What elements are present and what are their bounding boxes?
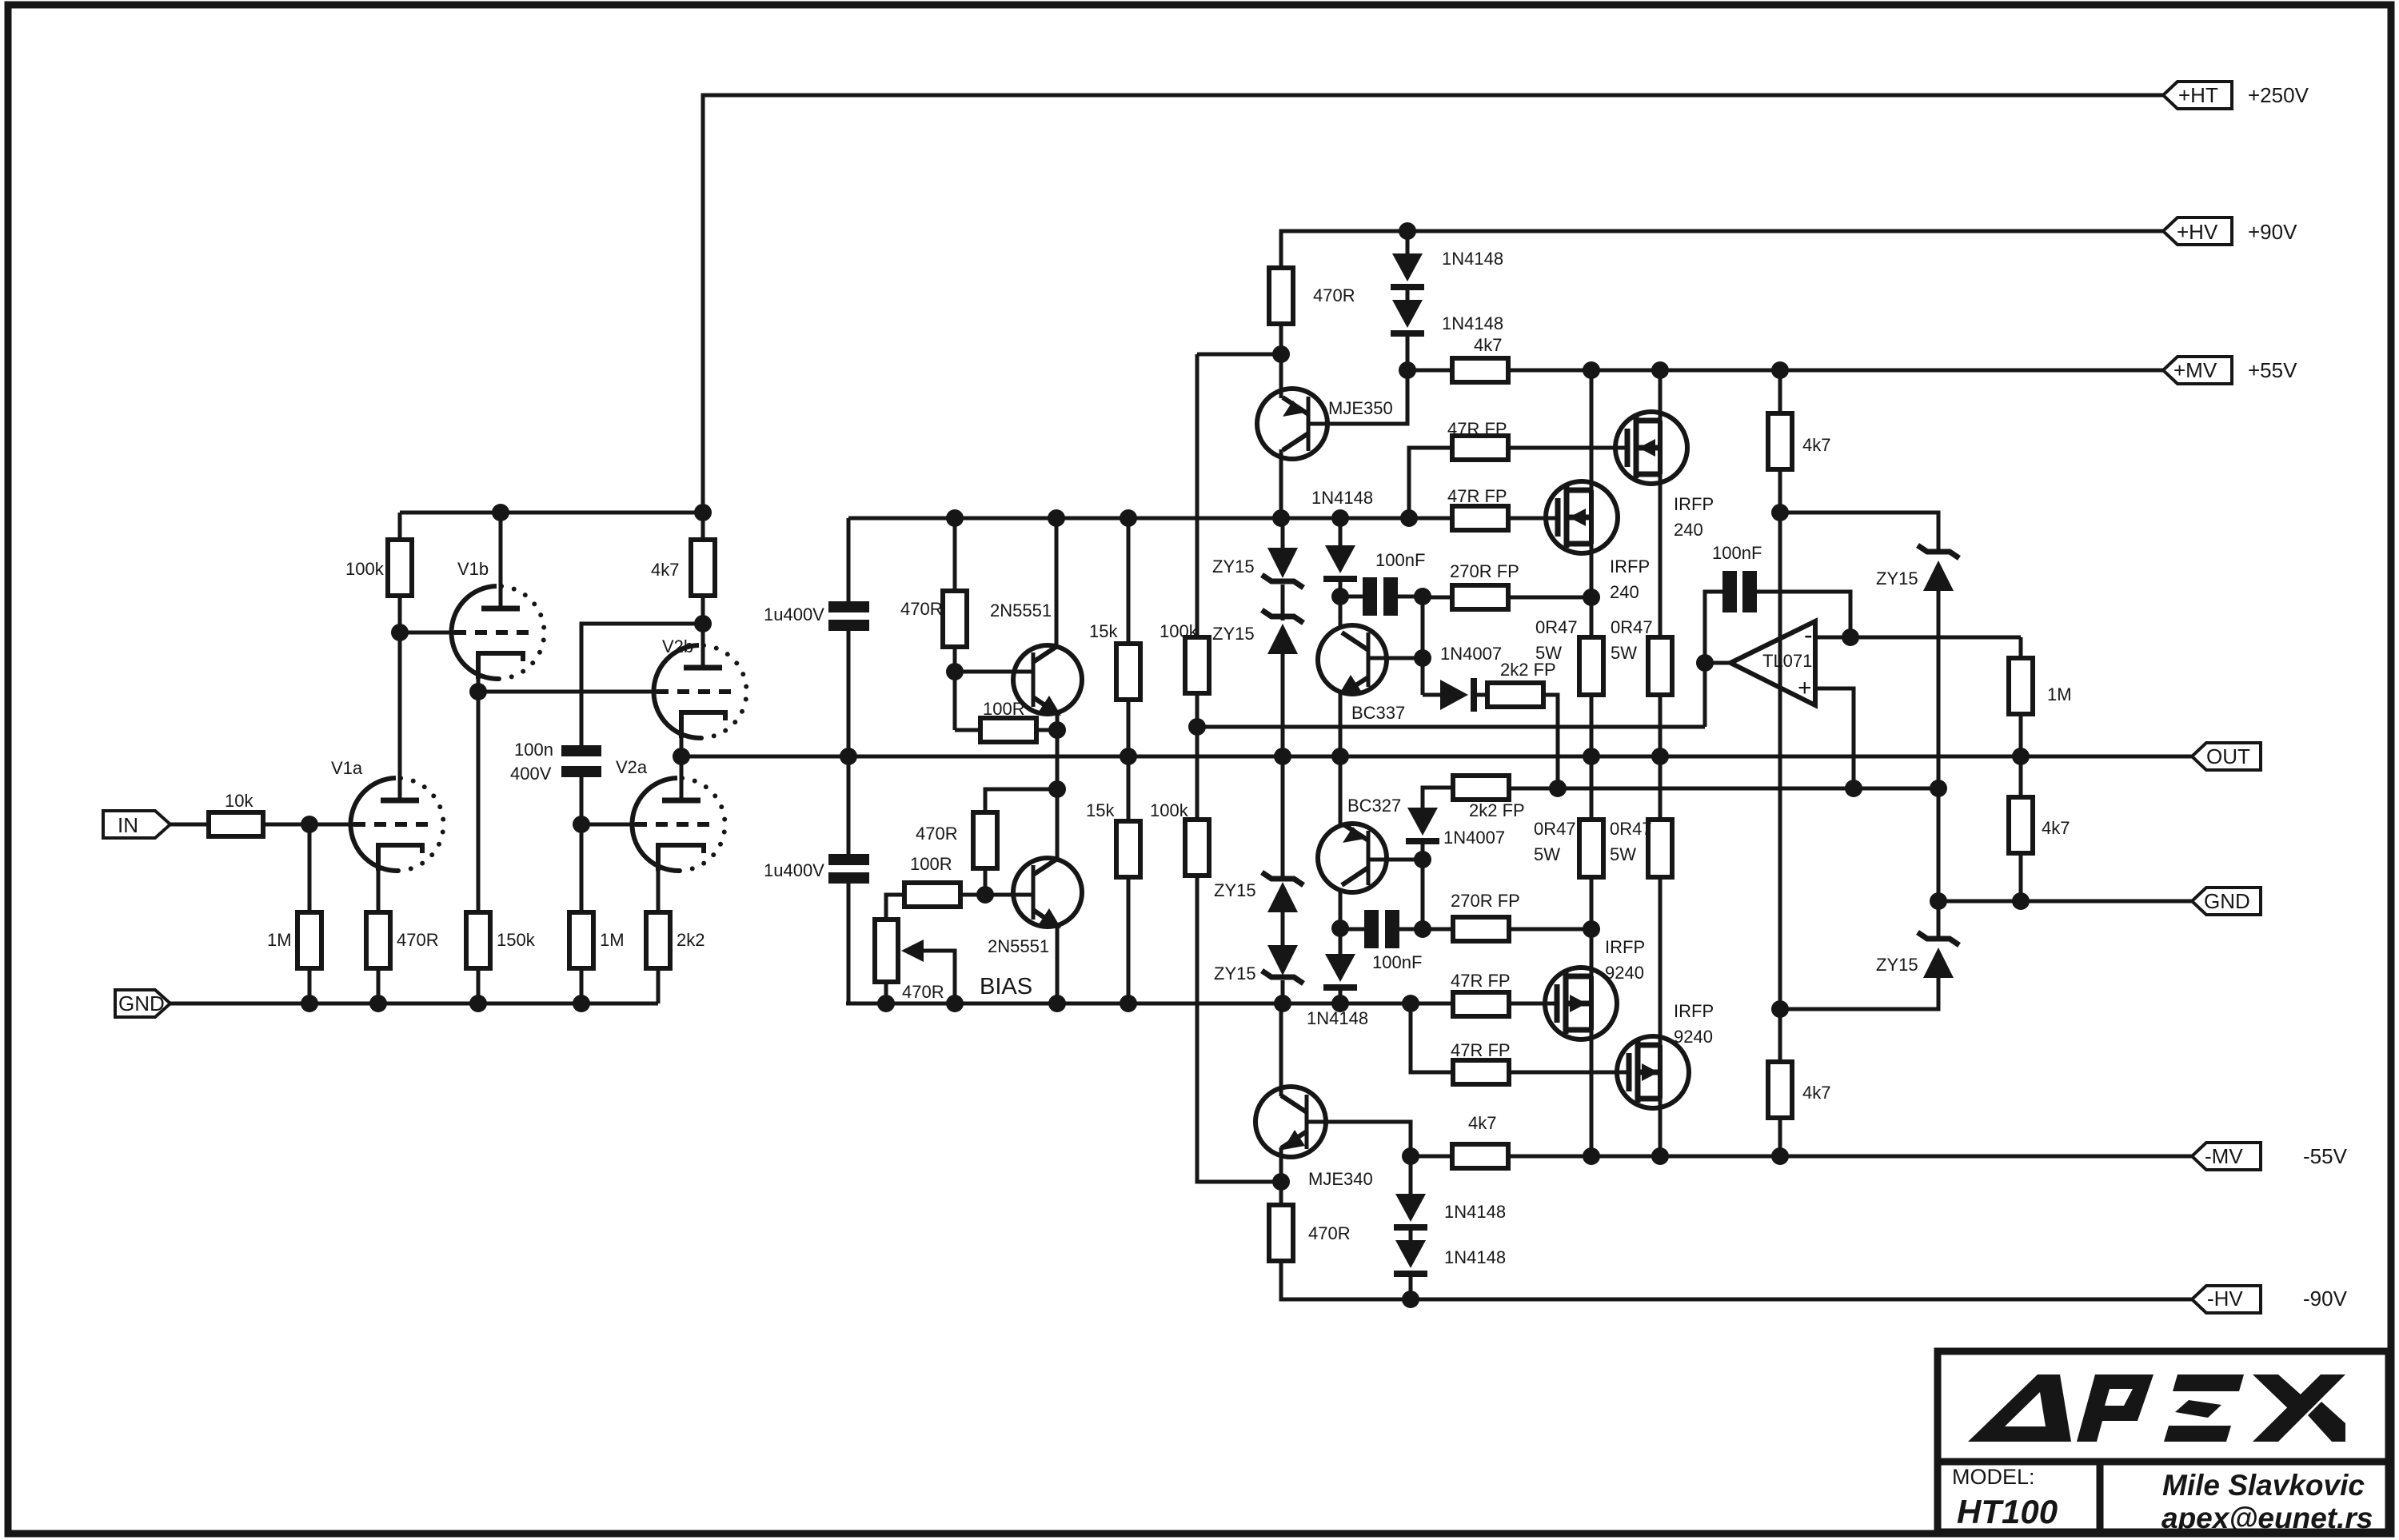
wire 2k2 to line C riser xyxy=(1543,695,1558,788)
wire MJE350 base lead xyxy=(1308,370,1407,424)
resistor 470R upper right xyxy=(1269,268,1355,324)
svg-text:V1a: V1a xyxy=(331,758,363,778)
svg-text:MJE350: MJE350 xyxy=(1328,398,1393,418)
svg-text:2N5551: 2N5551 xyxy=(990,600,1052,620)
wire top gate bus xyxy=(848,517,1453,521)
resistor 270R FP upper xyxy=(1450,561,1519,609)
wire riser base upper xyxy=(1421,596,1425,695)
wire Q1 emitter down xyxy=(1056,712,1060,789)
wire IRFP240u1 drain xyxy=(1659,370,1663,421)
svg-text:2k2 FP: 2k2 FP xyxy=(1469,800,1525,820)
wire Q2 emitter to bus xyxy=(1056,925,1060,1003)
wire GND right line xyxy=(1938,900,2192,904)
node 0R47 u1 OUT xyxy=(1583,748,1600,765)
node zener OUT xyxy=(1274,748,1291,765)
node inverting input xyxy=(1842,628,1859,646)
svg-text:15k: 15k xyxy=(1086,800,1115,820)
wire IN to 10k xyxy=(170,823,209,827)
wire supply column xyxy=(1778,469,1782,1009)
wire output riser to line A xyxy=(1703,663,1707,727)
node MJE350 emitter xyxy=(1272,345,1290,363)
svg-text:10k: 10k xyxy=(225,791,253,811)
node V1b cathode / V2b grid / 150k xyxy=(469,683,487,700)
svg-text:0R47: 0R47 xyxy=(1534,819,1576,839)
node base 2N5551 upper xyxy=(946,663,964,680)
svg-text:IN: IN xyxy=(118,813,138,837)
svg-text:IRFP: IRFP xyxy=(1605,937,1645,957)
wire MJE340 collector to bus xyxy=(1279,1003,1283,1096)
wire -MV rail xyxy=(1508,1155,2192,1159)
svg-text:BC327: BC327 xyxy=(1347,796,1401,816)
wire line C xyxy=(1509,787,1938,791)
node 0R47 u2 OUT xyxy=(1651,748,1669,765)
node 1M OUT xyxy=(2012,748,2030,765)
svg-text:150k: 150k xyxy=(497,930,536,950)
resistor 47R FP lower2 xyxy=(1451,1040,1511,1084)
svg-text:BIAS: BIAS xyxy=(980,974,1032,999)
node 1M2 GND xyxy=(573,995,590,1012)
transistor MJE350 xyxy=(1257,389,1393,459)
connector +MV xyxy=(2163,357,2297,384)
wire diodes to 4k7 node xyxy=(1406,337,1410,370)
svg-text:ZY15: ZY15 xyxy=(1876,569,1918,588)
zener ZY15 upper1 xyxy=(1212,518,1303,588)
resistor 470R cathode V1a xyxy=(366,912,439,968)
svg-text:1N4148: 1N4148 xyxy=(1442,249,1503,269)
svg-text:1M: 1M xyxy=(600,930,625,950)
svg-text:apex@eunet.rs: apex@eunet.rs xyxy=(2161,1502,2373,1534)
svg-text:4k7: 4k7 xyxy=(2042,818,2070,838)
wire 1N4007 to 2k2 xyxy=(1477,693,1487,697)
wire BC337 collector stub xyxy=(1339,518,1343,545)
wire top rail tube section xyxy=(400,511,703,515)
wire 15k upper to OUT xyxy=(1127,700,1131,756)
triode V2a xyxy=(616,756,725,871)
node V2a grid / 1M xyxy=(573,816,590,833)
svg-text:47R FP: 47R FP xyxy=(1451,1040,1511,1060)
capacitor 100nF feedback xyxy=(1712,543,1762,612)
node base 2N5551 lower xyxy=(976,886,994,904)
svg-text:+90V: +90V xyxy=(2248,220,2297,244)
node diodes lower base xyxy=(1402,1147,1419,1165)
svg-text:BC337: BC337 xyxy=(1351,703,1405,723)
wire 1M to GND xyxy=(580,968,584,1003)
svg-text:100nF: 100nF xyxy=(1712,543,1762,563)
node drain +MV u2 xyxy=(1583,361,1600,379)
wire lower cap to bottom bus xyxy=(848,884,872,1003)
diode 1N4148 upper2 xyxy=(1391,300,1503,337)
node 47R FP lower2 riser xyxy=(1402,995,1419,1012)
capacitor 100nF upper xyxy=(1363,550,1425,616)
wire V2b cathode to out node xyxy=(680,735,684,756)
svg-text:-55V: -55V xyxy=(2303,1144,2348,1168)
wire noninverting input riser xyxy=(1815,688,1854,788)
wire node to V1b grid xyxy=(400,631,454,635)
connector GND right xyxy=(2192,888,2261,915)
triode V1a xyxy=(331,632,444,871)
svg-text:1M: 1M xyxy=(267,930,292,950)
node 15k lower bus xyxy=(1120,995,1137,1012)
wire node to 4k7 xyxy=(1407,369,1452,373)
wire 0R47 u2 to OUT xyxy=(1659,695,1663,756)
wire 1M stub xyxy=(2019,637,2023,658)
transistor Q2 2N5551 lower xyxy=(988,858,1082,956)
wire 47R FP2 to gate xyxy=(1508,517,1556,521)
svg-text:1M: 1M xyxy=(2047,684,2072,704)
resistor 4k7 right upper xyxy=(1768,413,1830,469)
svg-text:470R: 470R xyxy=(397,930,439,950)
wire 270R lower left stub xyxy=(1423,928,1453,932)
diode 1N4007 upper xyxy=(1440,644,1502,712)
node 150k GND xyxy=(469,995,487,1012)
svg-text:V2a: V2a xyxy=(616,757,648,777)
svg-text:-90V: -90V xyxy=(2303,1287,2348,1311)
svg-text:4k7: 4k7 xyxy=(1468,1113,1496,1133)
wire TL071 output xyxy=(1705,661,1730,665)
transistor MJE340 xyxy=(1255,1087,1373,1189)
wire 1N4007 lower to 2k2 xyxy=(1423,788,1453,808)
triode V1b xyxy=(451,513,544,679)
node rail to HT riser xyxy=(694,504,712,521)
wire branch to zener right upper xyxy=(1780,513,1938,552)
resistor 4k7 upper xyxy=(1452,335,1508,382)
wire servo column lower xyxy=(1197,876,1281,1182)
svg-text:IRFP: IRFP xyxy=(1610,557,1650,577)
node 270R lower source column xyxy=(1583,920,1600,938)
diode 1N4007 lower xyxy=(1406,808,1505,848)
wire IRFP9240l1 drain xyxy=(1590,1030,1594,1156)
wire inverting input xyxy=(1815,636,2021,640)
node grid V1a / 1M xyxy=(301,816,318,833)
resistor 100k upper xyxy=(1160,621,1209,693)
wire 4k7 right lower to -MV xyxy=(1778,1118,1782,1156)
svg-text:-HV: -HV xyxy=(2207,1287,2243,1311)
node drain -MV l2 xyxy=(1651,1147,1669,1165)
wire OUT line xyxy=(681,755,2192,759)
wire base wire Q1 xyxy=(955,670,1033,674)
svg-text:1u400V: 1u400V xyxy=(764,860,824,880)
node 1N4148 top bus xyxy=(1399,222,1416,240)
wire line A xyxy=(1197,725,1705,729)
wire bus to 470R xyxy=(953,518,957,591)
resistor 1M grid V2a xyxy=(569,912,625,968)
wire 270R left stub xyxy=(1423,596,1452,600)
wire diode stub lower xyxy=(1409,1156,1413,1194)
wire 470R lower to collector node xyxy=(985,789,1057,812)
svg-text:0R47: 0R47 xyxy=(1611,617,1653,637)
wire MJE350 collector lead xyxy=(1279,449,1283,518)
diode 1N4148 upper1 xyxy=(1391,249,1503,290)
wire 1M to OUT xyxy=(2019,714,2023,756)
node 100nF tap lower xyxy=(1331,920,1349,937)
wire IRFP9240l2 source xyxy=(1659,877,1663,1045)
wire cathode node to V2b grid xyxy=(478,690,657,694)
node +MV supply column xyxy=(1771,361,1789,379)
node MJE350 collector bus xyxy=(1272,509,1290,527)
resistor 15k lower xyxy=(1086,800,1140,877)
svg-text:V2b: V2b xyxy=(662,636,693,656)
resistor 100R upper xyxy=(980,699,1036,742)
svg-text:100nF: 100nF xyxy=(1375,550,1425,570)
wire supply column top stub xyxy=(1778,370,1782,413)
node base tap upper xyxy=(1414,649,1431,667)
wire 150k to GND bus xyxy=(477,968,481,1003)
diode 1N4148 lower1 xyxy=(1394,1194,1506,1231)
node 100nF 270R riser lower xyxy=(1414,920,1431,938)
wire MJE340 base lead xyxy=(1307,1122,1411,1156)
wire node left to cap column xyxy=(581,624,703,745)
node BC327 diode bus xyxy=(1331,995,1349,1012)
svg-text:+MV: +MV xyxy=(2173,358,2217,382)
wire servo column middle xyxy=(1196,727,1199,820)
svg-text:240: 240 xyxy=(1610,582,1639,602)
svg-text:9240: 9240 xyxy=(1605,963,1644,983)
wire Q1 collector to bus xyxy=(1055,518,1059,646)
svg-text:4k7: 4k7 xyxy=(1474,335,1502,355)
svg-text:240: 240 xyxy=(1674,520,1703,540)
svg-text:470R: 470R xyxy=(902,982,944,1002)
wire 470R to base node xyxy=(953,647,957,672)
wire 270R right to source column xyxy=(1508,596,1591,600)
node 15k upper OUT xyxy=(1120,748,1137,765)
resistor 470R bias upper xyxy=(900,591,967,647)
svg-text:ZY15: ZY15 xyxy=(1876,955,1918,975)
wire base node to 100R xyxy=(953,672,957,730)
wire 47R FP1 link xyxy=(1409,448,1452,518)
wire 47R FP lower2 to gate xyxy=(1509,1071,1627,1075)
resistor 47R FP upper1 xyxy=(1447,419,1508,460)
wire 4k7 mid to GND xyxy=(2019,853,2023,901)
wire Q2 collector up xyxy=(1056,789,1060,859)
node Q2 collector / 470R lower xyxy=(1048,780,1066,798)
wire 100R lower right stub xyxy=(960,893,985,897)
mosfet U4 IRFP9240 lower2 xyxy=(1617,1001,1714,1108)
node V1a anode / V1b grid xyxy=(391,624,409,641)
wire 0R47 l1 to OUT xyxy=(1590,756,1594,820)
capacitor 1u400V lower xyxy=(764,854,869,884)
wire 1M to GND bus xyxy=(308,968,312,1003)
wire supply column to 4k7 lower xyxy=(1778,1009,1782,1062)
node 4k7 GND right xyxy=(2012,892,2030,910)
svg-text:MODEL:: MODEL: xyxy=(1952,1465,2035,1489)
wire pot bottom to bus xyxy=(884,982,888,1003)
wire +HT riser xyxy=(703,95,2164,513)
wire upper cap to OUT node xyxy=(847,631,851,756)
wire BC337 base xyxy=(1368,656,1423,660)
wire servo column upper xyxy=(1196,354,1199,637)
IN connector xyxy=(103,811,170,838)
resistor 0R47 5W upper1 xyxy=(1535,617,1603,695)
potentiometer BIAS 470R xyxy=(875,920,1032,1003)
wire 47R FP1 to gate xyxy=(1508,446,1626,450)
wire 100k upper to line A xyxy=(1196,693,1199,727)
wire V2a cathode to 2k2 xyxy=(657,868,661,912)
title block box xyxy=(1938,1351,2389,1532)
resistor 4k7 right lower xyxy=(1768,1062,1830,1118)
svg-text:HT100: HT100 xyxy=(1957,1493,2058,1530)
wire 100R right stub xyxy=(1036,728,1057,732)
zener ZY15 right lower xyxy=(1780,932,1959,1009)
logo APEX xyxy=(1968,1374,2345,1442)
svg-text:9240: 9240 xyxy=(1674,1027,1713,1047)
svg-text:1N4148: 1N4148 xyxy=(1442,313,1503,333)
node V2b cathode / V2a anode / OUT xyxy=(673,748,690,765)
wire IRFP9240l2 drain xyxy=(1659,1099,1663,1156)
svg-text:4k7: 4k7 xyxy=(651,560,679,580)
wire 1M column xyxy=(580,824,584,912)
svg-text:1N4148: 1N4148 xyxy=(1311,488,1373,508)
wire IRFP240u2 source xyxy=(1590,544,1594,637)
node 470R GND xyxy=(369,995,387,1012)
wire 10k to V1a grid xyxy=(263,823,353,827)
svg-text:15k: 15k xyxy=(1089,621,1118,641)
transistor BC337 xyxy=(1318,625,1405,723)
svg-text:47R FP: 47R FP xyxy=(1447,486,1507,506)
resistor 0R47 5W upper2 xyxy=(1611,617,1672,695)
node supply -MV xyxy=(1771,1147,1789,1165)
mosfet U2 IRFP240 upper2 xyxy=(1546,481,1650,602)
wire emitter to 470R lower xyxy=(1279,1182,1283,1205)
resistor 15k upper xyxy=(1089,621,1140,700)
wire 150k column xyxy=(477,692,481,912)
resistor 0R47 5W lower2 xyxy=(1610,819,1672,877)
connector +HV xyxy=(2163,217,2297,245)
svg-text:V1b: V1b xyxy=(457,559,489,579)
node zener right GND xyxy=(1930,892,1947,910)
wire between diodes xyxy=(1406,290,1410,300)
node pot wiper bus xyxy=(946,995,964,1012)
svg-text:MJE340: MJE340 xyxy=(1308,1169,1373,1189)
node base tap lower xyxy=(1414,851,1431,868)
svg-text:470R: 470R xyxy=(1313,285,1355,305)
resistor 47R FP lower1 xyxy=(1451,971,1511,1016)
node 1M GND xyxy=(301,995,318,1012)
wire 100nF lower right stub xyxy=(1399,928,1423,932)
wire IRFP240u1 source xyxy=(1659,474,1663,637)
wire 4k7 bottom to V2b anode node xyxy=(701,596,705,624)
capacitor 100n 400V xyxy=(510,740,601,784)
node MJE340 emitter xyxy=(1272,1173,1290,1191)
transistor BC327 xyxy=(1318,796,1401,892)
svg-text:-: - xyxy=(1804,620,1813,649)
connector +HT xyxy=(2163,82,2309,109)
svg-text:270R FP: 270R FP xyxy=(1450,561,1519,581)
node pot bottom bus xyxy=(877,995,895,1012)
wire 15k lower stub xyxy=(1127,756,1131,821)
zener ZY15 right upper xyxy=(1876,545,1959,788)
resistor 470R lower right xyxy=(1269,1205,1351,1261)
wire node to 4k7 lower xyxy=(1411,1155,1452,1159)
wire IRFP240u2 drain xyxy=(1590,370,1594,490)
node output 100nF xyxy=(1696,654,1714,672)
resistor 4k7 feedback xyxy=(2009,797,2070,853)
resistor 100k lower xyxy=(1150,800,1209,876)
mosfet U1 IRFP240 upper1 xyxy=(1615,412,1714,540)
node drain +MV u1 xyxy=(1651,361,1669,379)
node 270R source column xyxy=(1583,588,1600,606)
resistor 2k2 FP lower xyxy=(1453,776,1525,820)
node line A left xyxy=(1188,718,1206,736)
svg-text:4k7: 4k7 xyxy=(1802,1083,1830,1103)
wire -HV bus xyxy=(1281,1261,2192,1299)
svg-text:-MV: -MV xyxy=(2205,1144,2243,1168)
svg-text:ZY15: ZY15 xyxy=(1212,557,1255,577)
zener ZY15 lower1 xyxy=(1214,756,1303,912)
node drain -MV l1 xyxy=(1583,1147,1600,1165)
svg-text:100k: 100k xyxy=(1160,621,1199,641)
wire GND bus xyxy=(170,1002,658,1006)
svg-text:470R: 470R xyxy=(1308,1223,1351,1243)
node 470R bias top xyxy=(946,509,964,527)
svg-text:+HT: +HT xyxy=(2178,83,2218,107)
resistor 10k xyxy=(209,791,263,836)
wire 100nF right stub xyxy=(1398,595,1423,599)
node supply zener branch lower xyxy=(1771,1000,1789,1018)
wire 100R lower left to pot top xyxy=(886,895,904,920)
wire between lower diodes xyxy=(1409,1231,1413,1240)
wire BC327 base xyxy=(1368,858,1423,862)
node Q2 emitter bus xyxy=(1048,995,1066,1012)
svg-text:470R: 470R xyxy=(916,824,958,844)
capacitor 100nF lower xyxy=(1364,910,1422,972)
node diodes 4k7 base xyxy=(1399,361,1416,379)
wire 47R FP lower2 link xyxy=(1411,1003,1453,1072)
svg-text:100k: 100k xyxy=(1150,800,1189,820)
svg-text:400V: 400V xyxy=(510,764,552,784)
svg-text:+55V: +55V xyxy=(2248,358,2297,382)
wire base corner to 1N4007 xyxy=(1423,693,1440,697)
wire 270R lower right to source column xyxy=(1509,928,1591,932)
svg-text:OUT: OUT xyxy=(2206,744,2250,768)
svg-text:0R47: 0R47 xyxy=(1535,617,1578,637)
wire riser base lower xyxy=(1421,842,1425,929)
resistor 100k anode V1a xyxy=(345,540,412,596)
svg-text:2k2: 2k2 xyxy=(677,930,705,950)
svg-text:47R FP: 47R FP xyxy=(1447,419,1507,439)
wire 0R47 l2 to OUT xyxy=(1659,756,1663,820)
node 100nF 270R riser xyxy=(1414,588,1431,605)
svg-text:100R: 100R xyxy=(910,854,952,874)
node Q1 collector bus xyxy=(1048,509,1065,527)
wire bottom gate bus right xyxy=(1509,1002,1556,1006)
svg-text:TL071: TL071 xyxy=(1762,651,1812,671)
wire BC327 emitter xyxy=(1339,756,1343,825)
node V1b anode rail xyxy=(492,504,509,521)
wire 100nF right leg xyxy=(1757,592,1850,637)
capacitor 1u400V upper xyxy=(764,601,869,631)
wire 100k top to rail xyxy=(398,513,402,540)
wire 4k7 top stub xyxy=(701,513,705,540)
resistor 1M xyxy=(267,912,321,968)
svg-text:GND: GND xyxy=(2204,889,2250,913)
node BC337 collector bus xyxy=(1331,509,1349,527)
node zener bus lower xyxy=(1274,995,1291,1012)
wire node to 1M xyxy=(308,824,312,912)
svg-text:1N4148: 1N4148 xyxy=(1444,1202,1506,1222)
wire servo link upper xyxy=(1197,353,1281,357)
resistor 47R FP upper2 xyxy=(1447,486,1508,530)
wire +MV rail xyxy=(1508,369,2164,373)
svg-text:5W: 5W xyxy=(1610,844,1636,864)
wire node to V2a grid xyxy=(581,823,635,827)
svg-text:100n: 100n xyxy=(514,740,553,760)
wire 470R to GND bus xyxy=(377,968,381,1003)
node zener right upper line C xyxy=(1930,780,1947,797)
wire IRFP9240l1 source xyxy=(1590,877,1594,976)
zener ZY15 lower2 xyxy=(1214,912,1303,1003)
resistor 2k2 FP upper xyxy=(1487,660,1556,707)
diode 1N4148 BC337 xyxy=(1311,488,1373,582)
